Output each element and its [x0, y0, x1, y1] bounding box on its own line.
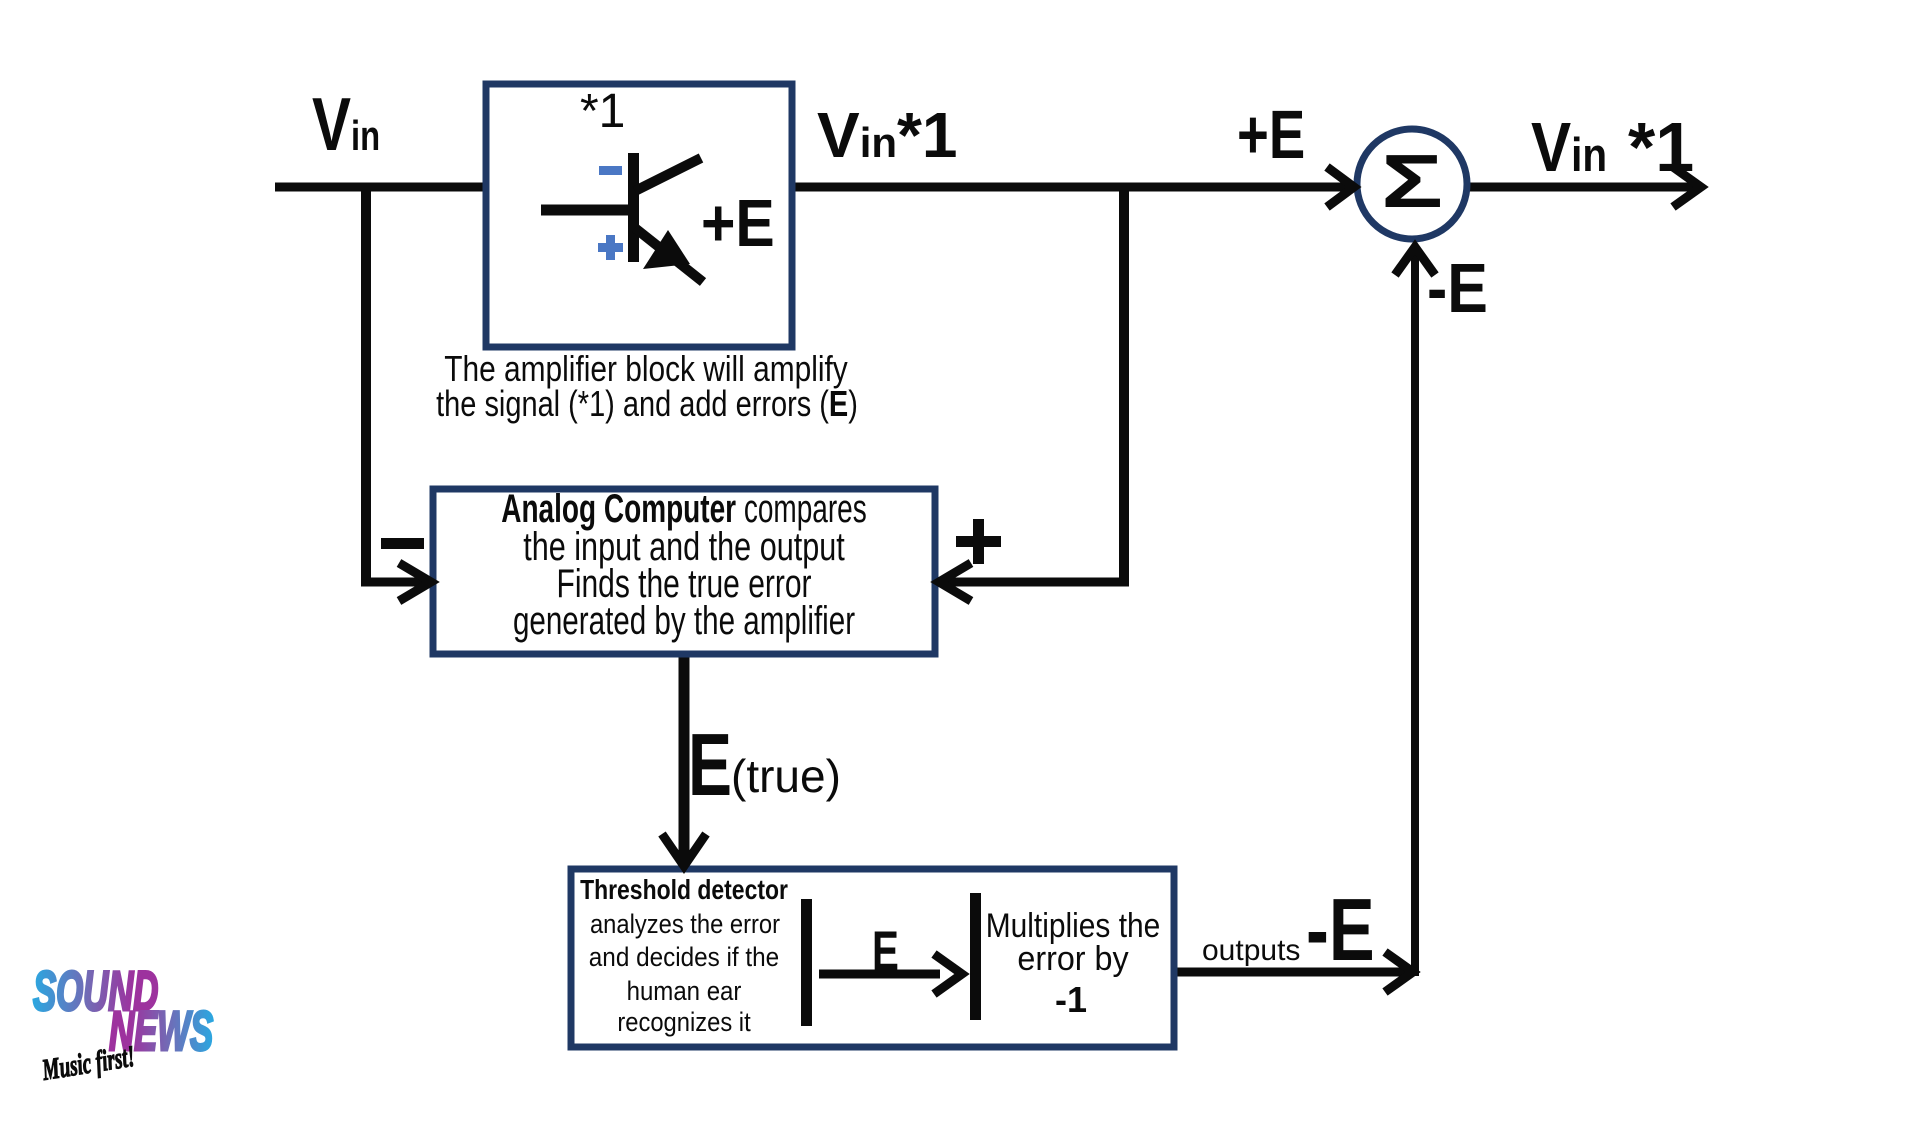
svg-text:generated by the amplifier: generated by the amplifier [513, 599, 855, 643]
svg-text:+E: +E [701, 187, 775, 261]
svg-text:Vin: Vin [312, 83, 380, 167]
svg-text:-E: -E [1306, 881, 1375, 979]
svg-text:-E: -E [1427, 249, 1488, 327]
svg-text:E: E [872, 921, 899, 983]
svg-text:E: E [688, 717, 732, 814]
svg-text:*1: *1 [1628, 108, 1694, 186]
svg-text:analyzes the error: analyzes the error [590, 910, 781, 940]
svg-text:*1: *1 [580, 85, 625, 138]
svg-text:(true): (true) [731, 750, 841, 802]
svg-text:and decides if the: and decides if the [589, 943, 779, 972]
svg-text:-1: -1 [1055, 979, 1087, 1020]
svg-text:error by: error by [1017, 940, 1129, 978]
svg-text:Threshold detector: Threshold detector [580, 875, 788, 906]
svg-text:Music first!: Music first! [39, 1041, 137, 1087]
svg-text:Σ: Σ [1381, 140, 1443, 224]
svg-text:Multiplies the: Multiplies the [986, 906, 1161, 944]
svg-text:human ear: human ear [627, 977, 742, 1007]
svg-text:the signal (*1) and add errors: the signal (*1) and add errors (E) [436, 383, 858, 424]
svg-text:recognizes it: recognizes it [617, 1008, 750, 1038]
svg-text:Vin: Vin [1531, 108, 1607, 186]
svg-text:outputs: outputs [1202, 934, 1300, 967]
svg-text:+E: +E [1237, 97, 1305, 174]
svg-text:Vin*1: Vin*1 [817, 99, 958, 171]
